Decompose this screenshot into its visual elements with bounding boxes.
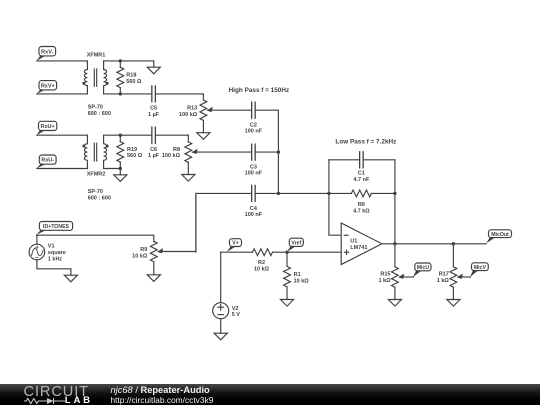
svg-text:600 : 600: 600 : 600 — [88, 196, 111, 202]
capacitor C6 — [152, 127, 155, 143]
junction feedback left mid — [327, 192, 330, 195]
potentiometer R9 — [150, 241, 157, 261]
svg-text:10 kΩ: 10 kΩ — [294, 278, 310, 284]
svg-text:XFMR1: XFMR1 — [87, 52, 106, 58]
wire R9 wiper to vertical — [162, 193, 196, 251]
net flag MicOut — [486, 237, 496, 243]
net flag MicU — [413, 270, 422, 277]
junction output fbR — [393, 242, 396, 245]
svg-text:R15: R15 — [380, 272, 390, 278]
svg-text:1 kΩ: 1 kΩ — [437, 278, 450, 284]
wire R2 to Vref junction to op-amp plus — [273, 251, 342, 253]
resistor R6 — [351, 190, 371, 197]
footer text line 1 — [111, 385, 210, 395]
resistor R6 wires — [329, 192, 352, 194]
source V1 circle — [29, 244, 45, 260]
svg-text:MicU: MicU — [417, 265, 430, 271]
svg-text:R13: R13 — [187, 106, 197, 112]
wire R17 bottom — [452, 287, 454, 293]
svg-text:R17: R17 — [439, 272, 449, 278]
wire R13 wiper to C2 — [208, 109, 254, 111]
resistor R19 — [117, 142, 124, 162]
net flag RxU- — [37, 164, 47, 169]
wire RxV- to XFMR1 primary top — [37, 60, 88, 62]
potentiometer R13 — [200, 100, 207, 120]
wire XFMR2 secondary top to C6/R8 — [104, 134, 189, 136]
svg-text:10 kΩ: 10 kΩ — [132, 253, 148, 259]
svg-text:4.7 nF: 4.7 nF — [353, 177, 370, 183]
ground at XFMR1 secondary top — [153, 61, 155, 67]
svg-text:C5: C5 — [150, 106, 157, 112]
wire RxU- to XFMR2 primary bottom — [37, 168, 88, 170]
wire XFMR1 secondary top to ground corner — [104, 60, 154, 62]
op-amp U1 triangle — [341, 223, 382, 265]
wire R18 top lead — [119, 61, 121, 67]
wire R18 bottom lead — [119, 88, 121, 94]
resistor R1 — [284, 266, 291, 286]
svg-text:ID+TONES: ID+TONES — [43, 224, 70, 230]
resistor R2 — [253, 249, 273, 256]
wire RxV+ to XFMR1 primary bottom — [37, 93, 88, 95]
wire R1 bottom lead — [286, 287, 288, 293]
svg-text:U1: U1 — [350, 238, 357, 244]
junction output R17 — [452, 242, 455, 245]
junction bus C4 — [277, 192, 280, 195]
svg-text:R1: R1 — [294, 272, 301, 278]
feedback box left vertical — [329, 160, 341, 235]
svg-text:100 kΩ: 100 kΩ — [162, 153, 181, 159]
svg-text:R9: R9 — [140, 247, 147, 253]
svg-text:100 kΩ: 100 kΩ — [179, 112, 198, 118]
wire V1 bottom to ground — [37, 260, 71, 275]
svg-text:RxU+: RxU+ — [41, 124, 55, 130]
wire XFMR2 secondary bottom — [104, 168, 121, 170]
net flag MicV — [470, 270, 479, 277]
feedback top wire with C1 — [329, 159, 395, 161]
wire fbR down to R15 — [394, 244, 396, 267]
svg-text:C6: C6 — [150, 147, 157, 153]
feedback right vertical — [394, 160, 396, 244]
capacitor C5 — [152, 86, 155, 102]
wire C5 to R13 top — [202, 94, 204, 100]
V2 minus sign — [218, 314, 224, 316]
junction R18 top — [119, 59, 122, 62]
ground below R1 — [286, 293, 288, 299]
wire R1 top lead — [286, 252, 288, 266]
junction R18 bottom — [119, 92, 122, 95]
ground below R8 — [187, 168, 189, 174]
wire C4 bus to feedback left — [278, 192, 329, 194]
potentiometer R15 — [392, 267, 399, 287]
svg-text:XFMR2: XFMR2 — [87, 172, 106, 178]
svg-text:RxV-: RxV- — [41, 49, 53, 55]
wire R17 down from output — [452, 244, 454, 267]
CircuitLab logo mark (resistor + diode glyph) — [24, 398, 66, 405]
wire R19 leads — [119, 135, 121, 141]
footer bar — [0, 384, 540, 405]
svg-text:SP-70: SP-70 — [88, 189, 103, 195]
wire plus row V+ corner to R2 — [221, 251, 253, 253]
junction bus C3 — [277, 150, 280, 153]
capacitor C1 — [360, 152, 363, 168]
svg-text:C2: C2 — [250, 122, 257, 128]
op-amp plus sign — [344, 250, 348, 254]
svg-text:1 kΩ: 1 kΩ — [378, 278, 391, 284]
capacitor C4 — [252, 185, 255, 201]
svg-text:5 V: 5 V — [232, 312, 241, 318]
wire R13 bottom to ground — [202, 120, 204, 126]
CircuitLab logo CIRCUIT — [24, 384, 89, 400]
net flag V+ — [227, 246, 237, 252]
highpass bus vertical — [277, 110, 279, 193]
svg-text:100 nF: 100 nF — [245, 129, 263, 135]
net flag RxV+ — [37, 89, 47, 94]
ground below R19 — [119, 169, 121, 175]
svg-text:4.7 kΩ: 4.7 kΩ — [353, 208, 370, 214]
svg-text:MicOut: MicOut — [491, 232, 509, 238]
svg-text:RxV+: RxV+ — [41, 83, 55, 89]
ground below R17 — [452, 293, 454, 299]
wire XFMR1 secondary bottom to C5 — [104, 93, 204, 95]
svg-text:R19: R19 — [127, 147, 137, 153]
svg-text:100 nF: 100 nF — [245, 212, 263, 218]
svg-text:Low Pass f = 7.2kHz: Low Pass f = 7.2kHz — [335, 138, 396, 145]
ground below R15 — [394, 293, 396, 299]
transformer XFMR2 — [84, 135, 87, 168]
svg-text:C1: C1 — [358, 171, 365, 177]
net flag RxU+ — [37, 130, 46, 135]
potentiometer R8 — [185, 142, 192, 162]
svg-text:600 : 600: 600 : 600 — [88, 111, 111, 117]
resistor R18 — [117, 67, 124, 87]
svg-text:V1: V1 — [48, 244, 55, 250]
svg-text:10 kΩ: 10 kΩ — [254, 267, 270, 273]
net flag Vref — [287, 246, 297, 252]
net flag RxV- — [37, 55, 47, 61]
op-amp minus sign — [344, 234, 348, 236]
svg-text:square: square — [48, 250, 66, 256]
svg-text:High Pass f = 150Hz: High Pass f = 150Hz — [229, 87, 290, 94]
svg-text:100 nF: 100 nF — [245, 171, 263, 177]
wire R8 bottom to ground — [187, 162, 189, 168]
svg-text:560 Ω: 560 Ω — [127, 153, 143, 159]
V2 plus sign — [218, 304, 224, 310]
wire RxU+ to XFMR2 primary top — [37, 134, 88, 136]
svg-text:C4: C4 — [250, 206, 258, 212]
svg-text:R6: R6 — [358, 202, 365, 208]
CircuitLab logo LAB — [65, 395, 93, 406]
svg-text:R18: R18 — [126, 73, 136, 79]
svg-text:1 kHz: 1 kHz — [48, 256, 63, 262]
junction Vref — [285, 251, 288, 254]
junction feedback right mid — [393, 192, 396, 195]
junction R19 bottom — [119, 167, 122, 170]
wire C6 to R8 top — [187, 135, 189, 142]
svg-text:SP-70: SP-70 — [88, 104, 103, 110]
capacitor C2 — [252, 102, 255, 118]
ground below R13 — [202, 126, 204, 132]
wire op-amp output row — [382, 243, 486, 245]
wire R8 wiper to C3 — [193, 151, 279, 153]
svg-text:Vref: Vref — [291, 240, 301, 246]
net flag ID+TONES — [36, 230, 46, 235]
svg-text:R2: R2 — [258, 260, 265, 266]
ground below R9 — [153, 269, 155, 275]
wire R9 bottom — [153, 262, 155, 269]
potentiometer R17 — [450, 267, 457, 287]
svg-text:1 µF: 1 µF — [148, 153, 160, 159]
svg-text:V+: V+ — [232, 241, 239, 247]
svg-text:MicV: MicV — [474, 265, 487, 271]
wire R15 bottom — [394, 287, 396, 293]
svg-text:1 µF: 1 µF — [148, 112, 160, 118]
transformer XFMR1 — [84, 61, 87, 94]
svg-text:560 Ω: 560 Ω — [126, 79, 142, 85]
svg-text:LM741: LM741 — [350, 245, 367, 251]
junction R19 top — [119, 134, 122, 137]
capacitor C3 — [252, 144, 255, 160]
wire R17 wiper to MicV — [461, 276, 470, 278]
svg-text:C3: C3 — [250, 164, 257, 170]
V1 waveform glyph — [32, 248, 43, 256]
wire V1 top lead — [36, 235, 38, 244]
wire V2 bottom — [220, 319, 222, 327]
wire R9 vertical to C4 row — [196, 193, 279, 252]
wire V+ column down to V2 — [220, 252, 222, 303]
footer text line 2 — [111, 395, 214, 405]
svg-text:R8: R8 — [173, 147, 180, 153]
wire ID+TONES row to R9 — [37, 235, 154, 242]
svg-text:RxU-: RxU- — [41, 158, 54, 164]
wire R15 wiper to MicU — [403, 276, 414, 278]
ground below V2 — [220, 327, 222, 333]
source V2 circle — [213, 303, 229, 319]
ground below V1 — [64, 275, 77, 282]
